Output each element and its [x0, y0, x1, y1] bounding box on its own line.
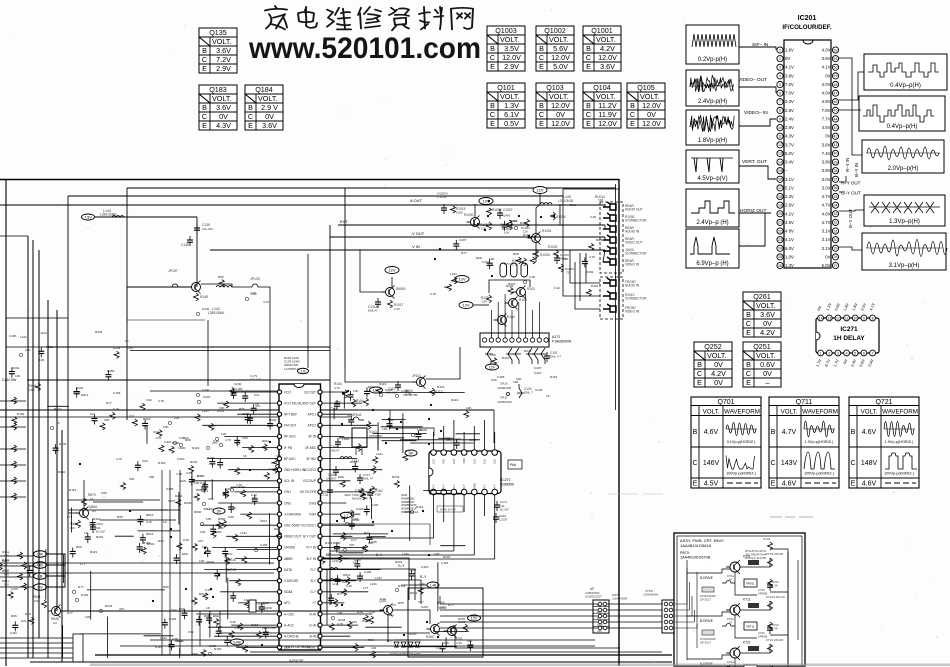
- wire: [490, 310, 492, 338]
- connector jack REAR VIDEO OUT: [603, 235, 616, 243]
- node 7.8V: [82, 214, 95, 220]
- svg-text:C207: C207: [11, 587, 19, 591]
- wire junction dots: [210, 588, 212, 590]
- svg-text:R812: R812: [201, 489, 209, 493]
- svg-text:R154: R154: [356, 399, 364, 403]
- svg-text:4.6V: 4.6V: [704, 429, 719, 436]
- capacitor CL23: [243, 645, 248, 652]
- svg-text:IF/COLOUR/DEF.: IF/COLOUR/DEF.: [782, 24, 831, 31]
- svg-text:1: 1: [820, 351, 822, 355]
- svg-text:VOLT.: VOLT.: [703, 409, 720, 416]
- connector jack J1000 /CONNECTOR: [603, 246, 616, 254]
- svg-text:3: 3: [837, 351, 839, 355]
- capacitor CL16: [214, 573, 220, 575]
- svg-text:C310: C310: [534, 371, 542, 375]
- wire: [150, 390, 279, 392]
- wire: [0, 235, 28, 237]
- components near Q1002s: [487, 208, 492, 215]
- node IC271 bottom pin 4: [461, 489, 467, 495]
- wire: [439, 596, 441, 604]
- diode D105: [539, 348, 547, 364]
- svg-text:Q104: Q104: [593, 83, 611, 92]
- svg-text:MA165 TAP: MA165 TAP: [352, 497, 368, 501]
- wire: [387, 615, 389, 642]
- wire: [262, 287, 270, 347]
- svg-text:JP101: JP101: [412, 374, 421, 378]
- node IC101 pin L10: [277, 490, 281, 494]
- svg-text:R77: R77: [405, 449, 411, 453]
- wire pin stub R: [322, 424, 377, 426]
- transistor R845: [52, 607, 61, 616]
- svg-text:R119: R119: [90, 550, 97, 554]
- svg-text:R77: R77: [67, 611, 73, 615]
- svg-text:R119: R119: [207, 456, 214, 460]
- wire: [47, 346, 330, 348]
- svg-text:C45: C45: [490, 353, 496, 357]
- svg-text:R102A: R102A: [540, 253, 551, 257]
- wire harness line: [440, 615, 662, 617]
- wire: [474, 204, 476, 217]
- wire pin stub R: [322, 535, 352, 537]
- connector jack REAR AUDIO IN: [603, 224, 616, 232]
- pill node b: [511, 263, 518, 277]
- svg-text:C240: C240: [202, 388, 210, 392]
- wire pin stub R: [322, 413, 352, 415]
- svg-text:VOLT.: VOLT.: [596, 35, 615, 44]
- svg-text:R119: R119: [591, 284, 598, 288]
- diode D2553: [415, 642, 420, 647]
- svg-text:L241: L241: [160, 636, 167, 640]
- svg-text:OK FILTER: OK FILTER: [300, 490, 317, 494]
- svg-text:J11NM450H: J11NM450H: [643, 593, 658, 597]
- wire terminal: [0, 642, 73, 644]
- wire: [504, 294, 506, 338]
- svg-text:1.9Vp-p(HORIZ.): 1.9Vp-p(HORIZ.): [885, 440, 914, 444]
- svg-text:J10802DB: J10802DB: [497, 386, 511, 390]
- resistor R4Ab: [22, 562, 27, 569]
- svg-text:EML: EML: [213, 614, 220, 618]
- svg-text:35: 35: [834, 195, 838, 199]
- svg-text:C310: C310: [177, 457, 185, 461]
- wire left stub: [0, 448, 26, 450]
- wire: [570, 250, 600, 283]
- wire: [361, 447, 363, 455]
- svg-text:0.4Vp–p(H): 0.4Vp–p(H): [887, 124, 918, 130]
- svg-text:WAVEFORM: WAVEFORM: [724, 409, 760, 416]
- wire: [391, 277, 393, 287]
- svg-text:VIDEO– IN: VIDEO– IN: [744, 110, 768, 116]
- svg-text:36: 36: [834, 186, 838, 190]
- svg-text:R234: R234: [338, 618, 346, 622]
- svg-text:3F IN2: 3F IN2: [306, 457, 316, 461]
- svg-text:C183: C183: [113, 391, 121, 395]
- wire harness into CRT: [675, 596, 692, 616]
- svg-text:R66: R66: [196, 488, 202, 492]
- svg-text:3F IN: 3F IN: [308, 435, 316, 439]
- svg-text:C: C: [202, 55, 207, 64]
- resistor edge R449: [12, 445, 17, 452]
- svg-text:IC201: IC201: [798, 15, 817, 22]
- label IN-DL 1H 5V: [437, 506, 463, 512]
- svg-text:R201: R201: [238, 485, 246, 489]
- voltage table Q1002: [536, 26, 574, 71]
- svg-text:CW4: CW4: [309, 512, 316, 516]
- svg-text:0.5V: 0.5V: [504, 119, 519, 128]
- wire terminal: [0, 652, 73, 654]
- wire pin stub L: [237, 413, 277, 415]
- resistor RR3: [366, 421, 371, 429]
- svg-text:C77: C77: [351, 538, 357, 542]
- svg-text:L77: L77: [80, 562, 85, 566]
- node IC271 top pin 12: [451, 450, 457, 456]
- svg-text:330: 330: [276, 454, 281, 458]
- resistor RR17: [345, 577, 350, 585]
- diode D2550: [394, 642, 399, 647]
- svg-text:4.0V: 4.0V: [822, 91, 831, 96]
- capacitor C1010: [554, 257, 560, 259]
- svg-text:12V: 12V: [536, 188, 543, 193]
- node IC101 pin L12: [277, 512, 281, 516]
- svg-text:4.0V: 4.0V: [822, 48, 831, 53]
- svg-text:0.1F: 0.1F: [554, 286, 560, 290]
- svg-text:B-DRIVE: B-DRIVE: [700, 576, 713, 580]
- svg-text:R119: R119: [46, 345, 53, 349]
- svg-text:VOLT.: VOLT.: [258, 94, 277, 103]
- node IC271 bottom pin 6: [482, 489, 488, 495]
- resistor R148: [194, 293, 199, 301]
- svg-text:R55: R55: [117, 515, 123, 519]
- svg-text:100: 100: [15, 374, 20, 378]
- svg-text:KT11A 2SC1K: KT11A 2SC1K: [766, 595, 785, 599]
- svg-text:R812: R812: [199, 592, 207, 596]
- svg-text:7.8V: 7.8V: [822, 108, 831, 113]
- svg-text:22: 22: [778, 229, 782, 233]
- svg-text:R152: R152: [586, 270, 594, 274]
- svg-text:R930: R930: [409, 632, 417, 636]
- resistor edge R497: [12, 493, 17, 500]
- svg-text:4.8V: 4.8V: [785, 229, 794, 234]
- wire harness: [150, 639, 595, 641]
- wire pin stub L: [220, 591, 277, 593]
- svg-text:R152: R152: [17, 412, 25, 416]
- capacitor C7x: [767, 627, 773, 629]
- svg-text:R66: R66: [163, 585, 169, 589]
- svg-text:R66: R66: [11, 614, 17, 618]
- svg-text:2.2K: 2.2K: [590, 215, 597, 219]
- node 5V oval: [213, 508, 225, 514]
- wire terminal: [0, 637, 73, 639]
- svg-text:11: 11: [778, 135, 782, 139]
- wire pin stub L: [235, 558, 277, 560]
- svg-text:3.6V: 3.6V: [600, 62, 615, 71]
- transistor Q103c: [517, 288, 526, 297]
- node IC101 pin R12: [318, 512, 322, 516]
- svg-text:R234: R234: [404, 510, 412, 514]
- svg-text:1AA4B10LD5618: 1AA4B10LD5618: [680, 543, 712, 548]
- svg-text:LC89950: LC89950: [500, 483, 514, 487]
- svg-text:QP-2SC7: QP-2SC7: [700, 640, 712, 644]
- wire terminal: [0, 647, 73, 649]
- waveform box 1.8Vp-p(H) video in: [686, 110, 739, 145]
- resistor R265: [463, 624, 468, 632]
- svg-text:R812: R812: [146, 532, 154, 536]
- svg-text:R6500: R6500: [396, 287, 406, 291]
- capacitor C271: [494, 504, 500, 506]
- svg-text:EML: EML: [338, 475, 345, 479]
- svg-text:Q400: Q400: [503, 214, 511, 218]
- node IC101 pin L5: [277, 434, 281, 438]
- node IC101 pin R16: [318, 556, 322, 560]
- voltage table Q135: [199, 28, 237, 73]
- wire left stub: [0, 426, 26, 428]
- svg-text:R410: R410: [54, 407, 62, 411]
- svg-text:4.7V: 4.7V: [782, 429, 797, 436]
- svg-text:R660: R660: [194, 510, 202, 514]
- svg-text:R234: R234: [113, 346, 121, 350]
- svg-text:C183: C183: [364, 570, 372, 574]
- svg-text:Q1002: Q1002: [544, 26, 566, 35]
- svg-text:APC1: APC1: [308, 413, 317, 417]
- svg-text:P870:: P870:: [680, 551, 690, 555]
- svg-text:105Vp-p(HORIZ.): 105Vp-p(HORIZ.): [804, 472, 834, 476]
- svg-text:12: 12: [778, 143, 782, 147]
- svg-text:L.1: L.1: [344, 514, 349, 518]
- node IC101 pin L20: [277, 601, 281, 605]
- svg-text:19: 19: [778, 204, 782, 208]
- svg-text:6.9Vp–p (H): 6.9Vp–p (H): [696, 261, 728, 267]
- svg-text:BUS D: BUS D: [226, 568, 236, 572]
- svg-text:B: B: [490, 101, 495, 110]
- svg-text:C: C: [202, 112, 207, 121]
- svg-text:12V: 12V: [489, 366, 496, 370]
- svg-text:2.9V: 2.9V: [504, 62, 519, 71]
- wire: [686, 560, 688, 660]
- svg-text:0V: 0V: [763, 369, 772, 378]
- waveform box 2.0Vp-p(H) B-Y in: [862, 140, 944, 173]
- capacitor C101A: [375, 301, 381, 303]
- svg-text:15: 15: [778, 169, 782, 173]
- svg-text:1.5K: 1.5K: [772, 626, 778, 630]
- svg-text:R66: R66: [76, 545, 82, 549]
- svg-text:12.0V: 12.0V: [551, 119, 570, 128]
- wire pin stub L: [226, 535, 277, 537]
- svg-text:1AA4B10ED670B: 1AA4B10ED670B: [680, 556, 711, 560]
- node 12V oval a: [385, 267, 399, 274]
- svg-text:R66: R66: [204, 614, 210, 618]
- node IC101 pin R24: [318, 645, 322, 649]
- svg-text:4.6V: 4.6V: [782, 481, 797, 488]
- svg-text:CLK: CLK: [452, 459, 456, 464]
- voltage table Q104: [583, 83, 621, 128]
- svg-text:A OUT: A OUT: [410, 198, 423, 203]
- svg-text:49: 49: [834, 74, 838, 78]
- svg-text:1.3V: 1.3V: [504, 101, 519, 110]
- wire pin stub L: [236, 646, 277, 648]
- svg-text:R812: R812: [410, 591, 418, 595]
- svg-text:R55: R55: [25, 612, 31, 616]
- node SJ4B oval: [231, 639, 244, 645]
- diode D100: [485, 348, 493, 364]
- svg-text:5V: 5V: [217, 510, 222, 514]
- svg-text:C183: C183: [235, 387, 243, 391]
- svg-text:5.0V: 5.0V: [553, 62, 568, 71]
- resistor R264A: [369, 616, 374, 624]
- wire: [100, 519, 176, 521]
- svg-text:C: C: [490, 110, 495, 119]
- node IC101 pin R13: [318, 523, 322, 527]
- wire trunk lower: [169, 470, 171, 655]
- node IC271 bottom pin 7: [492, 489, 498, 495]
- svg-text:4.7V: 4.7V: [822, 194, 831, 199]
- svg-text:IC101 LA76810A: IC101 LA76810A: [286, 645, 311, 649]
- node IC101 pin L15: [277, 545, 281, 549]
- svg-text:R234: R234: [59, 442, 67, 446]
- svg-text:C92: C92: [142, 459, 148, 463]
- wire pin stub R: [322, 546, 366, 548]
- capacitor CL15: [242, 557, 247, 564]
- svg-text:VOLT.: VOLT.: [549, 92, 568, 101]
- svg-text:VOLT.: VOLT.: [781, 409, 798, 416]
- svg-text:C183: C183: [260, 543, 268, 547]
- svg-text:Q101: Q101: [497, 83, 515, 92]
- svg-text:1.5K: 1.5K: [772, 583, 778, 587]
- svg-text:4.6V: 4.6V: [822, 211, 831, 216]
- wire: [0, 572, 274, 574]
- capacitor CL1: [224, 401, 229, 408]
- svg-text:75: 75: [566, 271, 570, 275]
- resistor R4Ad: [22, 583, 27, 590]
- svg-text:B: B: [630, 101, 635, 110]
- resistor RR5: [356, 444, 361, 452]
- svg-text:IF PB: IF PB: [284, 446, 292, 450]
- svg-text:R1016: R1016: [556, 215, 566, 219]
- svg-text:4.0V: 4.0V: [822, 82, 831, 87]
- diode D2552: [408, 642, 413, 647]
- svg-text:31: 31: [834, 229, 838, 233]
- svg-text:J11AN450M: J11AN450M: [612, 597, 628, 601]
- node IC101 pin L1: [277, 390, 281, 394]
- svg-text:E: E: [539, 62, 544, 71]
- svg-text:1H DELAY: 1H DELAY: [833, 335, 865, 342]
- waveform box 0.2Vp-p(H) SIF input: [686, 25, 739, 64]
- svg-text:–: –: [766, 378, 770, 387]
- wire: [196, 217, 198, 287]
- svg-text:27: 27: [834, 264, 838, 268]
- svg-text:47K: 47K: [227, 552, 233, 556]
- node HB oval: [34, 562, 47, 569]
- svg-text:3.6V: 3.6V: [262, 121, 277, 130]
- capacitor CL22: [224, 639, 230, 641]
- capacitor C148: [334, 403, 340, 405]
- svg-text:3.4V: 3.4V: [785, 160, 794, 165]
- svg-text:Q701: Q701: [717, 399, 734, 406]
- svg-text:47K: 47K: [208, 497, 214, 501]
- wire R-Y/B-Y routing: [839, 58, 852, 140]
- potentiometer VR701: [744, 579, 757, 587]
- scan speckle noise: [590, 492, 591, 493]
- svg-text:R152: R152: [158, 461, 166, 465]
- svg-text:R812: R812: [262, 439, 270, 443]
- wire: [489, 280, 530, 293]
- svg-text:4.5V: 4.5V: [704, 481, 719, 488]
- svg-text:C45: C45: [451, 279, 457, 283]
- svg-text:3.6V: 3.6V: [216, 103, 231, 112]
- svg-text:51: 51: [834, 57, 838, 61]
- svg-text:EML: EML: [192, 652, 199, 656]
- node IC101 pin R1: [318, 390, 322, 394]
- transistor Q430: [431, 625, 440, 634]
- svg-text:10K: 10K: [434, 552, 440, 556]
- wire: [126, 188, 128, 420]
- wire trunk: [47, 300, 49, 658]
- svg-text:17: 17: [778, 186, 782, 190]
- node HP oval: [405, 450, 417, 456]
- svg-text:3.6V: 3.6V: [760, 310, 775, 319]
- svg-text:21: 21: [778, 221, 782, 225]
- svg-text:B-Y: B-Y: [311, 579, 317, 583]
- svg-text:7.2V: 7.2V: [216, 55, 231, 64]
- svg-text:C207: C207: [420, 428, 428, 432]
- wire harness line: [440, 621, 662, 623]
- svg-text:H-ACC: H-ACC: [284, 623, 295, 627]
- svg-text:4.7V: 4.7V: [822, 220, 831, 225]
- svg-text:R55: R55: [239, 407, 245, 411]
- wire: [473, 304, 489, 306]
- svg-text:100Vp-p(HORIZ.): 100Vp-p(HORIZ.): [726, 472, 756, 476]
- wire pin stub R: [322, 569, 380, 571]
- svg-text:L231: L231: [332, 582, 339, 586]
- svg-text:5.6K: 5.6K: [28, 388, 36, 392]
- svg-text:CLK: CLK: [472, 459, 476, 464]
- svg-text:L241: L241: [376, 452, 383, 456]
- svg-text:C183: C183: [9, 334, 17, 338]
- wire harness into CRT: [675, 582, 690, 610]
- transistor Q604: [417, 378, 426, 387]
- svg-text:12.0V: 12.0V: [642, 101, 661, 110]
- wire trunk: [56, 310, 58, 611]
- svg-text:R201: R201: [96, 535, 104, 539]
- svg-text:14: 14: [819, 316, 823, 320]
- wire: [393, 610, 430, 624]
- svg-text:R119: R119: [325, 541, 332, 545]
- svg-text:4.7K: 4.7K: [589, 255, 596, 259]
- svg-text:47K: 47K: [198, 539, 204, 543]
- svg-text:38: 38: [834, 169, 838, 173]
- svg-text:VR701: VR701: [746, 582, 755, 586]
- svg-text:C240: C240: [234, 382, 242, 386]
- svg-text:1.3V: 1.3V: [785, 263, 794, 268]
- node IC271 bottom pin 3: [451, 489, 457, 495]
- waveform box 2.4Vp-p(H) video out: [686, 70, 739, 106]
- svg-text:3.8V: 3.8V: [822, 168, 831, 173]
- wire pin stub L: [217, 402, 277, 404]
- svg-text:J104: J104: [40, 331, 47, 335]
- svg-text:R410: R410: [510, 219, 518, 223]
- connector jack FRONT VIDEO IN: [603, 304, 616, 312]
- svg-text:Q103: Q103: [546, 83, 564, 92]
- transistor table Q721: [849, 397, 919, 488]
- wire left stub: [0, 400, 26, 402]
- svg-text:R55: R55: [398, 601, 404, 605]
- svg-text:K2L: K2L: [90, 412, 96, 416]
- svg-text:6: 6: [779, 91, 781, 95]
- resistor RR21: [347, 621, 352, 629]
- svg-text:L241: L241: [450, 272, 457, 276]
- svg-text:0.1F: 0.1F: [146, 520, 152, 524]
- svg-text:C92: C92: [171, 608, 177, 612]
- wire pin stub R: [322, 480, 350, 482]
- voltage table Q261: [743, 292, 781, 337]
